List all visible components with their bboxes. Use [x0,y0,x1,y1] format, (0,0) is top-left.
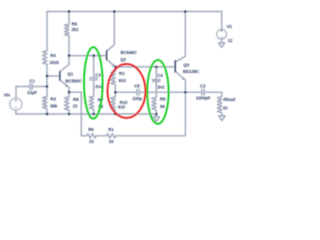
transistor Q2 collector [107,45,114,51]
capacitor C2 [202,89,204,95]
wire Q2 emitter to Q3 base [115,66,174,68]
wire Q1 base [47,75,59,77]
resistor R9 [152,81,157,114]
wire C3 top [93,56,95,78]
Vin plus minus [15,99,18,107]
wire Vin bottom [15,110,17,114]
annotation green ellipse 2 [147,60,168,124]
svg-text:220µ: 220µ [132,96,142,101]
resistor R2 [111,67,116,92]
ground Rload [219,113,225,121]
resistor Rload [217,96,222,112]
svg-text:C2: C2 [200,84,206,89]
svg-text:BD139C: BD139C [183,69,200,74]
svg-text:33: 33 [89,139,94,144]
resistor R8 [65,92,70,114]
svg-text:22µF: 22µF [27,90,37,95]
wire C1 right [33,86,47,88]
transistor Q3 collector [176,56,186,61]
wire feedback row right [116,92,186,136]
svg-text:191k: 191k [49,60,59,65]
ground V2 [218,43,224,47]
svg-text:R8: R8 [73,97,79,102]
wire feedback row left [81,135,86,137]
ground R9 [153,114,159,121]
svg-text:56k: 56k [50,103,58,108]
svg-text:C3: C3 [95,73,101,78]
transistor Q2 emitter [107,60,115,67]
resistor R3 [43,97,48,114]
wire V2 branch [221,12,223,30]
resistor R5 [65,12,70,56]
svg-text:Vin: Vin [4,93,11,98]
wire Q2 collector drop [113,12,115,45]
annotation green ellipse 1 [84,47,103,118]
resistor R1 [106,134,115,138]
svg-text:R1: R1 [108,127,114,132]
junction dots [68,10,71,13]
svg-text:C1: C1 [29,79,35,84]
wire between R6 R1 [96,135,106,137]
wire bottom ground rail [16,113,156,115]
svg-text:BC546C: BC546C [121,50,138,55]
svg-text:BC550C: BC550C [65,78,82,83]
transistor Q1 collector [60,56,69,72]
svg-text:C5: C5 [134,84,140,89]
svg-text:22: 22 [73,104,78,109]
svg-text:12: 12 [228,38,233,43]
resistor R6 [87,134,96,138]
wire R4 bottom to base node [46,64,48,86]
source Vin [10,98,22,110]
svg-text:R4: R4 [50,53,56,58]
svg-text:Rload: Rload [223,97,235,102]
wire mid-left rail [69,55,106,57]
capacitor C5 [137,89,139,95]
wire Q3 collector drop [184,12,186,57]
svg-text:1000pF: 1000pF [196,95,211,100]
svg-text:C4: C4 [157,73,163,78]
transistor Q3 bar [174,60,176,72]
svg-text:Q3: Q3 [183,62,189,67]
svg-text:2n2: 2n2 [157,84,165,89]
svg-text:R3: R3 [50,97,56,102]
svg-text:R5: R5 [72,22,78,27]
transistor Q3 emitter [176,72,186,93]
resistor R7 [89,80,94,114]
wire output rail [115,91,136,93]
svg-text:2k2: 2k2 [71,27,79,32]
capacitor C3 [90,78,98,80]
wire C2 right [205,92,222,96]
svg-text:R9: R9 [160,97,166,102]
arrow Q2 emitter [112,63,115,66]
arrow Q1 emitter [65,84,68,87]
resistor R4 [43,51,48,64]
capacitor C1 [30,84,32,90]
svg-text:910: 910 [119,78,127,83]
wire V2 bottom [221,39,223,43]
wire output rail right of C5 [140,91,201,93]
transistor Q1 bar [59,71,61,81]
annotation red ellipse [108,64,146,118]
wire top +12V rail [47,11,222,13]
resistor R10 [111,92,116,114]
wire feedback tap [69,92,81,136]
svg-text:R6: R6 [88,127,94,132]
svg-text:56: 56 [160,104,165,109]
wire Vin top [16,86,29,88]
arrow Q3 emitter [182,77,185,80]
V2 plus minus [220,30,223,38]
svg-text:R2: R2 [119,71,125,76]
transistor Q2 bar [106,50,108,60]
wire C4 top [155,67,157,80]
wire left column top [46,12,48,51]
voltage source V2 [217,29,227,39]
svg-text:33: 33 [109,139,114,144]
svg-text:Q1: Q1 [67,71,73,76]
svg-text:910: 910 [118,105,126,110]
transistor Q1 emitter [60,80,69,92]
svg-text:V2: V2 [227,24,233,29]
wire input node down [46,87,48,97]
svg-text:32: 32 [223,105,228,110]
capacitor C4 [153,80,161,82]
wire Vin to corner [15,87,17,99]
svg-text:Q2: Q2 [120,57,126,62]
